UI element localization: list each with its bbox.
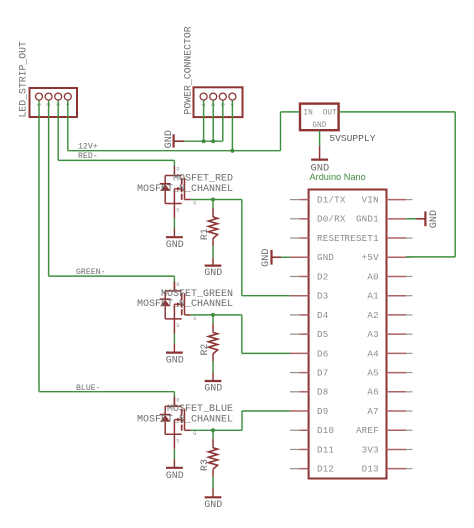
net label GREEN- (76, 268, 105, 277)
ground under Q2 source (166, 333, 184, 366)
svg-text:D0/RX: D0/RX (317, 214, 346, 225)
U1 right pin VIN (387, 199, 413, 201)
ground GND1 at power connector (164, 130, 184, 148)
svg-text:MOSFET_BLUE: MOSFET_BLUE (167, 404, 233, 415)
svg-text:RESET: RESET (317, 233, 346, 244)
U1 right pin D13 (387, 468, 413, 470)
svg-text:GND: GND (311, 162, 330, 174)
U1 left pin D5 (290, 333, 309, 335)
svg-text:LED_STRIP_OUT: LED_STRIP_OUT (18, 41, 29, 118)
U1 right pin A5 (387, 372, 413, 374)
wire BLUE- horizontal (39, 391, 174, 393)
svg-text:AREF: AREF (356, 425, 379, 436)
svg-text:R2: R2 (199, 344, 210, 356)
U1 left pin D4 (290, 314, 309, 316)
U1 right pin A7 (387, 410, 413, 412)
MOSFET_RED name label (173, 173, 233, 184)
svg-text:D: D (176, 167, 179, 173)
svg-text:3V3: 3V3 (362, 444, 379, 455)
U1 right pin +5V (387, 256, 413, 258)
svg-text:G: G (193, 200, 196, 206)
svg-text:GREEN-: GREEN- (76, 268, 105, 277)
svg-text:D8: D8 (317, 387, 328, 398)
svg-text:D10: D10 (317, 425, 334, 436)
wire 12V+ horizontal (68, 150, 281, 152)
svg-text:D12: D12 (317, 464, 334, 475)
wire BLUE- drop to Q3 drain (173, 392, 175, 398)
svg-text:GND: GND (429, 210, 440, 228)
LED_STRIP_OUT label (18, 41, 29, 118)
U1 right pin AREF (387, 429, 413, 431)
svg-text:GND: GND (261, 249, 272, 267)
svg-text:A3: A3 (367, 329, 378, 340)
LED_STRIP_OUT connector (30, 88, 78, 117)
svg-text:A1: A1 (367, 291, 379, 302)
junction Q1 gate / R1 (211, 198, 215, 202)
svg-text:D6: D6 (317, 348, 328, 359)
svg-text:D9: D9 (317, 406, 328, 417)
U1 left pin RESET (290, 237, 309, 239)
U1 right pin A3 (387, 333, 413, 335)
junction Q3 gate / R3 (211, 428, 215, 432)
svg-text:+5V: +5V (362, 252, 379, 263)
MOSFET_GREEN value label N_CHANNEL (137, 299, 233, 310)
transistor MOSFET_GREEN N-channel MOSFET (160, 281, 196, 333)
voltage supply U2 5VSUPPLY (300, 104, 339, 131)
wire Q3 gate run up (241, 411, 243, 430)
wire GREEN- drop to Q2 drain (173, 276, 175, 282)
wire into D9 pin (242, 410, 290, 412)
wire GREEN- horizontal (49, 275, 175, 277)
U1 right pin GND1 (387, 218, 413, 220)
ground under R1 (204, 246, 222, 279)
svg-text:R3: R3 (199, 459, 210, 471)
U1 right pin 3V3 (387, 448, 413, 450)
svg-text:A6: A6 (367, 387, 378, 398)
svg-text:GND1: GND1 (356, 214, 379, 225)
svg-text:POWER_CONNECTOR: POWER_CONNECTOR (183, 26, 194, 114)
ground under 5VSUPPLY (311, 130, 330, 174)
wire Q1 gate to node (191, 199, 242, 201)
wire RED- horizontal (58, 159, 174, 161)
ground under R3 (204, 477, 222, 511)
U1 left pin GND (290, 256, 309, 258)
net label RED- (78, 152, 98, 161)
svg-text:IN: IN (303, 110, 313, 118)
wire Q2 gate run down (241, 315, 243, 353)
ground at U1 GND1 (416, 210, 440, 228)
wire Q2 gate to node (191, 314, 242, 316)
U1 left pin D2 (290, 275, 309, 277)
svg-text:D7: D7 (317, 367, 328, 378)
wire into D3 pin (242, 295, 290, 297)
svg-text:D: D (176, 282, 179, 288)
wire LED pin3 to RED- rail (57, 100, 59, 160)
transistor MOSFET_BLUE N-channel MOSFET (160, 397, 196, 449)
resistor R2 (208, 315, 217, 362)
net label 12V+ (78, 142, 98, 151)
Arduino Nano IC U1 body (309, 190, 387, 479)
svg-text:A5: A5 (367, 367, 378, 378)
transistor MOSFET_RED N-channel MOSFET (160, 166, 196, 218)
svg-text:GND: GND (204, 500, 222, 511)
svg-text:S: S (176, 438, 179, 444)
svg-text:GND: GND (164, 130, 175, 148)
wire LED pin2 to GREEN- rail (48, 100, 50, 276)
wire power pin4 down to 12V+ (231, 100, 233, 150)
junction Q2 gate / R2 (211, 313, 215, 317)
U1 right pin RESET1 (387, 237, 413, 239)
svg-text:GND: GND (204, 384, 222, 395)
svg-text:D1/TX: D1/TX (317, 195, 346, 206)
MOSFET_RED value label N_CHANNEL (137, 184, 233, 195)
U1 right pin A4 (387, 352, 413, 354)
svg-text:GND: GND (204, 268, 222, 279)
MOSFET_BLUE value label N_CHANNEL (137, 415, 233, 426)
svg-text:D2: D2 (317, 271, 328, 282)
svg-text:GND: GND (312, 122, 326, 130)
wire power pin1 down (203, 100, 205, 141)
wire 12V+ into IN pin (281, 111, 301, 113)
Q2 drain pin red part (173, 282, 175, 291)
svg-text:MOSFET_RED: MOSFET_RED (173, 173, 233, 184)
wire supply OUT to riser (339, 111, 456, 113)
svg-text:5VSUPPLY: 5VSUPPLY (329, 133, 375, 144)
POWER_CONNECTOR label (183, 26, 194, 114)
U1 left pin D6 (290, 352, 309, 354)
Q3 drain pin red part (173, 398, 175, 407)
wire LED pin4 down (67, 100, 69, 150)
svg-text:A2: A2 (367, 310, 378, 321)
wire Q1 gate run down (241, 200, 243, 296)
svg-text:D13: D13 (362, 464, 379, 475)
svg-text:A4: A4 (367, 348, 379, 359)
svg-text:D5: D5 (317, 329, 328, 340)
svg-text:G: G (193, 316, 196, 322)
junction power pin1 GND (202, 139, 206, 143)
U1 left pin D10 (290, 429, 309, 431)
svg-text:RESET1: RESET1 (345, 233, 380, 244)
net label BLUE- (76, 384, 101, 393)
svg-text:D4: D4 (317, 310, 329, 321)
resistor R3 (208, 430, 217, 477)
svg-text:MOSFET_N_CHANNEL: MOSFET_N_CHANNEL (137, 299, 233, 310)
wire LED pin1 to BLUE- rail (38, 100, 40, 391)
ground under R2 (204, 361, 222, 394)
U1 right pin A1 (387, 295, 413, 297)
svg-text:D: D (176, 397, 179, 403)
MOSFET_BLUE name label (167, 404, 233, 415)
wire U1 GND pin wire (281, 256, 290, 258)
svg-text:S: S (176, 208, 179, 214)
svg-text:D3: D3 (317, 291, 328, 302)
svg-text:A0: A0 (367, 271, 378, 282)
resistor R1 (208, 200, 217, 247)
U1 left pin D12 (290, 468, 309, 470)
U1 right pin A6 (387, 391, 413, 393)
svg-text:G: G (193, 431, 196, 437)
svg-text:R1: R1 (199, 228, 210, 240)
U1 right pin A2 (387, 314, 413, 316)
wire 12V+ riser to supply IN (280, 112, 282, 151)
wire into +5V pin (406, 256, 455, 258)
U1 left pin D9 (290, 410, 309, 412)
wire Q3 gate to node (191, 429, 242, 431)
wire riser down right side (454, 112, 456, 257)
svg-text:MOSFET_N_CHANNEL: MOSFET_N_CHANNEL (137, 415, 233, 426)
svg-text:GND: GND (166, 355, 184, 366)
svg-text:S: S (176, 323, 179, 329)
wire power GND horizontal (184, 140, 223, 142)
svg-text:MOSFET_GREEN: MOSFET_GREEN (161, 289, 233, 300)
wire power pin3 down (222, 100, 224, 141)
svg-text:VIN: VIN (362, 195, 379, 206)
R3 label (199, 459, 210, 471)
U1 left pin D11 (290, 448, 309, 450)
junction power pin2 GND (211, 139, 215, 143)
MOSFET_GREEN name label (161, 289, 233, 300)
wire RED- drop to Q1 drain (173, 160, 175, 166)
U1 left pin D8 (290, 391, 309, 393)
5VSUPPLY value label (329, 133, 375, 144)
svg-text:MOSFET_N_CHANNEL: MOSFET_N_CHANNEL (137, 184, 233, 195)
wire GND1 pin wire (406, 218, 416, 220)
svg-text:D11: D11 (317, 444, 334, 455)
ground under Q1 source (166, 218, 184, 251)
svg-text:RED-: RED- (78, 152, 98, 161)
POWER_CONNECTOR connector (194, 87, 243, 117)
U1 left pin D0/RX (290, 218, 309, 220)
svg-text:GND: GND (166, 471, 184, 482)
U1 left pin D1/TX (290, 199, 309, 201)
junction power pin4 12V+ (230, 149, 234, 153)
svg-text:A7: A7 (367, 406, 378, 417)
Arduino Nano label (310, 172, 366, 182)
U1 left pin D7 (290, 372, 309, 374)
U1 left pin D3 (290, 295, 309, 297)
svg-text:GND: GND (166, 240, 184, 251)
wire power pin2 down (212, 100, 214, 141)
svg-text:12V+: 12V+ (78, 142, 98, 151)
ground under Q3 source (166, 449, 184, 482)
U1 right pin A0 (387, 275, 413, 277)
ground at U1 GND (261, 249, 281, 267)
svg-text:OUT: OUT (323, 110, 337, 118)
svg-text:GND: GND (317, 252, 334, 263)
svg-text:BLUE-: BLUE- (76, 384, 101, 393)
R2 label (199, 344, 210, 356)
wire into D6 pin (242, 352, 290, 354)
R1 label (199, 228, 210, 240)
